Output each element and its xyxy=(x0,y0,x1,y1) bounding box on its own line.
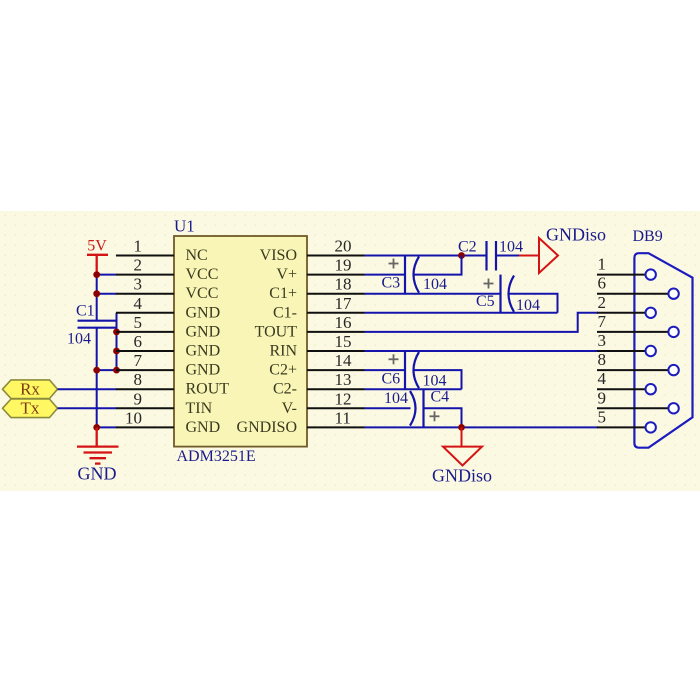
svg-text:104: 104 xyxy=(67,331,91,348)
junction dot pin3 rail xyxy=(93,290,100,297)
svg-text:C1: C1 xyxy=(76,303,95,320)
svg-text:RIN: RIN xyxy=(269,343,297,360)
junction dot pin7 right xyxy=(113,367,120,374)
wire GND vertical rail xyxy=(96,328,98,428)
junction dot pin6 xyxy=(113,348,120,355)
svg-text:V+: V+ xyxy=(276,266,297,283)
svg-text:C4: C4 xyxy=(431,389,450,406)
svg-text:Rx: Rx xyxy=(20,380,40,399)
svg-text:C3: C3 xyxy=(382,275,401,292)
svg-text:GND: GND xyxy=(78,464,117,484)
port Rx xyxy=(3,380,58,399)
svg-text:6: 6 xyxy=(598,274,607,293)
wire C6 to pin13 net xyxy=(414,370,462,389)
svg-text:TIN: TIN xyxy=(186,400,213,417)
ground GND xyxy=(77,427,119,463)
power port GNDiso top xyxy=(519,238,558,273)
svg-text:2: 2 xyxy=(134,256,143,275)
svg-text:5V: 5V xyxy=(87,238,107,255)
svg-text:10: 10 xyxy=(125,408,142,427)
svg-text:1: 1 xyxy=(598,255,607,274)
svg-text:C1+: C1+ xyxy=(269,285,297,302)
U1 right pins 20-11 xyxy=(307,256,365,428)
wire VISO pin20 xyxy=(365,255,487,257)
svg-text:C2-: C2- xyxy=(273,381,297,398)
svg-text:V-: V- xyxy=(282,400,297,417)
svg-text:3: 3 xyxy=(598,331,607,350)
svg-text:C6: C6 xyxy=(382,371,401,388)
svg-text:104: 104 xyxy=(384,390,408,407)
svg-text:U1: U1 xyxy=(174,217,195,236)
svg-text:GNDiso: GNDiso xyxy=(546,225,606,245)
junction dot pin20 xyxy=(458,252,465,259)
wire pin7 extension xyxy=(97,369,117,371)
power port 5V xyxy=(87,255,108,276)
svg-text:16: 16 xyxy=(335,313,352,332)
wire Rx to ROUT xyxy=(58,388,117,390)
wire VCC vertical rail xyxy=(96,274,98,321)
connector DB9 body xyxy=(633,228,693,448)
svg-text:GND: GND xyxy=(186,343,221,360)
svg-text:C5: C5 xyxy=(476,293,495,310)
svg-text:VCC: VCC xyxy=(186,285,219,302)
svg-text:GNDiso: GNDiso xyxy=(432,466,492,486)
junction dot pin7 left xyxy=(93,367,100,374)
svg-text:ROUT: ROUT xyxy=(186,381,230,398)
wire Tx to TIN xyxy=(58,407,117,409)
junction dot pin2 rail xyxy=(93,271,100,278)
svg-text:GND: GND xyxy=(186,323,221,340)
wire C5 to pin17 net xyxy=(509,294,558,313)
wire C1- pin17 xyxy=(365,312,558,314)
svg-text:104: 104 xyxy=(423,373,447,390)
power port GNDiso bottom xyxy=(443,427,482,465)
svg-text:GND: GND xyxy=(186,304,221,321)
svg-text:GND: GND xyxy=(186,362,221,379)
wire C2+ pin14 to C6 xyxy=(365,369,406,371)
svg-text:Tx: Tx xyxy=(21,399,40,418)
junction dot pin5 xyxy=(113,329,120,336)
svg-text:8: 8 xyxy=(598,350,607,369)
svg-text:19: 19 xyxy=(335,256,352,275)
wire pin3 to VCC rail xyxy=(97,293,117,295)
svg-text:12: 12 xyxy=(335,389,352,408)
svg-text:17: 17 xyxy=(335,294,353,313)
svg-text:VISO: VISO xyxy=(260,247,297,264)
svg-text:C1-: C1- xyxy=(273,304,297,321)
svg-text:7: 7 xyxy=(598,312,607,331)
svg-text:104: 104 xyxy=(423,276,447,293)
wire pin4-pin7 vertical xyxy=(116,313,118,370)
DB9 pin numbers xyxy=(598,255,607,427)
svg-text:NC: NC xyxy=(186,247,208,264)
capacitor C6 xyxy=(382,351,447,390)
svg-text:6: 6 xyxy=(134,332,143,351)
IC U1 body xyxy=(174,217,307,466)
capacitor C3 xyxy=(382,256,448,294)
svg-text:2: 2 xyxy=(598,293,607,312)
junction dot pin11 xyxy=(458,424,465,431)
capacitor C4 xyxy=(384,389,449,428)
wire pin10 extension xyxy=(97,426,117,428)
svg-text:DB9: DB9 xyxy=(633,228,663,245)
U1 left pin numbers xyxy=(125,237,143,428)
svg-text:20: 20 xyxy=(335,237,352,256)
capacitor C1 xyxy=(78,321,116,328)
svg-text:8: 8 xyxy=(134,370,143,389)
svg-text:C2: C2 xyxy=(458,239,477,256)
DB9 pin stubs xyxy=(597,275,668,428)
U1 right pin numbers xyxy=(335,237,353,428)
svg-text:11: 11 xyxy=(335,408,351,427)
svg-text:9: 9 xyxy=(598,388,607,407)
svg-text:3: 3 xyxy=(134,275,143,294)
svg-text:TOUT: TOUT xyxy=(255,323,298,340)
svg-text:C2+: C2+ xyxy=(269,362,297,379)
wire pin2 to VCC rail xyxy=(97,274,117,276)
svg-text:GNDISO: GNDISO xyxy=(237,419,297,436)
U1 right pin names xyxy=(237,247,298,436)
wire GNDISO pin11 to DB9 pin5 xyxy=(365,426,599,428)
wire C3 to pin20 net xyxy=(414,256,462,275)
wire C4 to pin11 net xyxy=(424,408,462,427)
svg-text:9: 9 xyxy=(134,389,143,408)
U1 left pins 1-10 xyxy=(116,256,174,428)
wire C2 to GNDiso xyxy=(496,255,519,257)
svg-text:5: 5 xyxy=(134,313,143,332)
svg-text:14: 14 xyxy=(335,351,353,370)
junction dot pin10 xyxy=(93,424,100,431)
wire TOUT pin16 to DB9 pin2 xyxy=(365,313,599,332)
wire C1+ pin18 to C5 xyxy=(365,293,501,295)
svg-text:18: 18 xyxy=(335,275,352,294)
svg-text:104: 104 xyxy=(499,239,523,256)
svg-text:ADM3251E: ADM3251E xyxy=(177,448,256,465)
wire C2- pin13 xyxy=(365,388,462,390)
svg-text:4: 4 xyxy=(598,369,607,388)
svg-text:104: 104 xyxy=(516,297,540,314)
wire V- pin12 to C4 xyxy=(365,407,411,409)
wire RIN pin15 to DB9 pin3 xyxy=(365,350,599,352)
DB9 pin circles xyxy=(646,269,679,432)
capacitor C5 xyxy=(476,275,540,314)
capacitor C2 xyxy=(487,241,497,271)
wire V+ pin19 to C3 xyxy=(365,274,406,276)
svg-text:GND: GND xyxy=(186,419,221,436)
svg-text:VCC: VCC xyxy=(186,266,219,283)
svg-text:13: 13 xyxy=(335,370,352,389)
svg-text:1: 1 xyxy=(134,237,143,256)
U1 left pin names xyxy=(186,247,230,436)
svg-text:5: 5 xyxy=(598,407,607,426)
svg-text:15: 15 xyxy=(335,332,352,351)
port Tx xyxy=(3,399,58,418)
svg-text:4: 4 xyxy=(134,294,143,313)
svg-text:7: 7 xyxy=(134,351,143,370)
